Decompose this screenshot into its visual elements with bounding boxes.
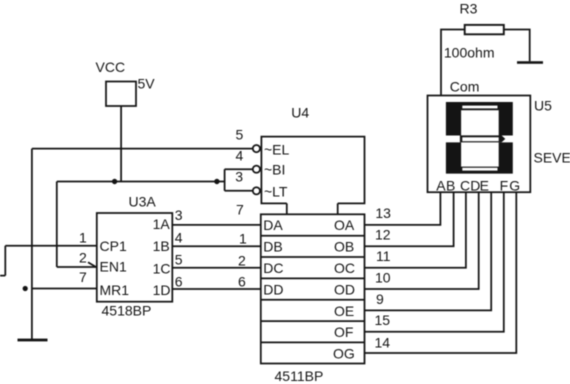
svg-text:2: 2	[238, 253, 246, 269]
svg-text:U3A: U3A	[129, 194, 157, 210]
svg-text:OF: OF	[334, 324, 353, 340]
svg-text:15: 15	[375, 312, 391, 328]
svg-text:12: 12	[375, 227, 391, 243]
svg-text:OE: OE	[334, 303, 354, 319]
svg-text:MR1: MR1	[100, 282, 130, 298]
wire bracket to ~LT	[225, 190, 253, 192]
wire OB to segment B	[365, 192, 454, 246]
svg-text:R3: R3	[460, 0, 478, 16]
wire VCC vertical drop	[120, 106, 122, 182]
svg-text:U5: U5	[534, 97, 552, 113]
wire ground to ~EL	[32, 148, 253, 150]
wire 1A to DA	[172, 224, 260, 226]
svg-text:3: 3	[175, 207, 183, 223]
svg-text:1: 1	[79, 230, 87, 246]
svg-text:DA: DA	[263, 217, 283, 233]
wire OE to segment E	[365, 192, 492, 310]
svg-text:13: 13	[375, 205, 391, 221]
svg-text:100ohm: 100ohm	[444, 44, 495, 60]
svg-text:DD: DD	[263, 281, 283, 297]
U4 row divider 5	[261, 320, 365, 322]
svg-text:9: 9	[376, 291, 384, 307]
wire EN1 horizontal into U3A	[57, 266, 97, 268]
svg-text:OB: OB	[334, 239, 354, 255]
segment D slit	[462, 168, 497, 171]
svg-text:C: C	[460, 177, 470, 193]
svg-text:11: 11	[376, 248, 391, 264]
svg-text:B: B	[446, 177, 455, 193]
svg-text:1A: 1A	[153, 216, 171, 232]
svg-text:14: 14	[375, 335, 391, 351]
svg-text:OG: OG	[333, 346, 355, 362]
pin bubble ~BI	[253, 166, 260, 173]
decoder U4 lower box	[261, 214, 365, 363]
svg-text:7: 7	[79, 269, 87, 285]
pin bubble ~EL	[253, 145, 260, 152]
svg-text:4: 4	[236, 147, 244, 163]
wire 1D to DD	[172, 288, 260, 290]
decoder U4 upper box	[261, 137, 364, 215]
wire OG to segment G	[365, 192, 517, 353]
svg-text:4518BP: 4518BP	[102, 303, 152, 319]
seven segment digit upper ring	[446, 102, 513, 136]
power symbol VCC	[106, 82, 136, 107]
svg-text:5V: 5V	[138, 76, 156, 92]
svg-text:SEVEN: SEVEN	[534, 150, 570, 166]
svg-text:1C: 1C	[153, 260, 171, 276]
svg-text:1D: 1D	[153, 282, 171, 298]
svg-text:OA: OA	[334, 217, 355, 233]
wire R3 right down	[504, 30, 530, 62]
ground symbol left	[18, 339, 48, 342]
wire 1C to DC	[172, 267, 260, 269]
svg-text:7: 7	[236, 202, 244, 218]
wire OA to segment A	[365, 192, 441, 225]
svg-text:CP1: CP1	[100, 238, 127, 254]
U4 row divider 4	[261, 299, 365, 301]
svg-text:5: 5	[236, 127, 244, 143]
svg-text:DB: DB	[263, 239, 282, 255]
svg-text:EN1: EN1	[100, 259, 127, 275]
segment A slit	[462, 106, 497, 109]
U4 row divider 3	[261, 277, 365, 279]
wire R3 left to Com	[441, 30, 465, 96]
svg-text:~EL: ~EL	[264, 141, 290, 157]
svg-text:VCC: VCC	[96, 59, 126, 75]
U4 row divider 1	[261, 235, 365, 237]
display U5 box	[428, 96, 531, 193]
U4 row divider 6	[261, 341, 365, 343]
svg-text:~BI: ~BI	[264, 161, 285, 177]
node junction dot VCC rail	[112, 179, 117, 184]
wire EN1 diagonal jog	[88, 262, 96, 267]
svg-text:4: 4	[175, 230, 183, 246]
svg-text:OD: OD	[334, 281, 355, 297]
wire VCC horizontal rail	[57, 181, 225, 183]
pin bubble ~LT	[253, 187, 260, 194]
wire ground vertical left	[31, 149, 33, 339]
counter U3A box	[97, 213, 173, 302]
ground symbol right	[517, 61, 543, 64]
svg-text:F: F	[500, 177, 509, 193]
svg-text:U4: U4	[291, 105, 309, 121]
svg-text:6: 6	[238, 274, 246, 290]
U4 row divider 2	[261, 256, 365, 258]
svg-text:4511BP: 4511BP	[275, 368, 324, 384]
svg-text:10: 10	[375, 270, 391, 286]
segment G bar outline	[460, 135, 505, 142]
resistor R3	[465, 25, 504, 34]
seven segment digit lower ring	[446, 142, 513, 173]
svg-text:OC: OC	[334, 260, 355, 276]
wire OD to segment D	[365, 192, 479, 289]
wire MR1 horizontal	[32, 288, 97, 290]
svg-text:Com: Com	[450, 78, 480, 94]
svg-text:6: 6	[175, 274, 183, 290]
wire OF to segment F	[365, 192, 504, 332]
node junction dot near BI-LT bracket	[214, 179, 219, 184]
wire clock input from left edge	[0, 246, 97, 276]
wire 1B to DB	[172, 245, 260, 247]
svg-text:~LT: ~LT	[264, 183, 288, 199]
svg-text:DC: DC	[263, 260, 283, 276]
svg-text:G: G	[509, 177, 520, 193]
wire EN1 vertical from VCC rail	[56, 182, 58, 268]
svg-text:1: 1	[239, 231, 247, 247]
node junction dot MR1	[23, 286, 28, 291]
svg-text:1B: 1B	[153, 238, 170, 254]
wire OC to segment C	[365, 192, 466, 268]
wire bracket vertical tying ~BI and ~LT	[224, 169, 226, 191]
svg-text:5: 5	[175, 252, 183, 268]
svg-text:E: E	[480, 177, 489, 193]
segment G bar inner	[462, 137, 498, 141]
svg-text:A: A	[436, 177, 446, 193]
wire bracket to ~BI	[225, 168, 253, 170]
svg-text:2: 2	[79, 250, 87, 266]
svg-text:3: 3	[235, 168, 243, 184]
